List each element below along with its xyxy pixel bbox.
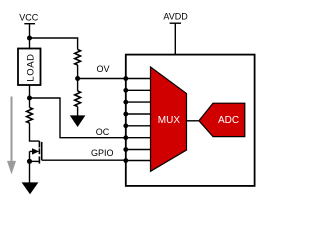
svg-text:AVDD: AVDD (163, 12, 188, 22)
svg-text:MUX: MUX (158, 115, 181, 126)
svg-text:VCC: VCC (19, 12, 39, 22)
svg-text:LOAD: LOAD (26, 53, 37, 81)
svg-text:OV: OV (97, 64, 110, 74)
svg-text:GPIO: GPIO (91, 148, 114, 158)
svg-text:ADC: ADC (218, 115, 239, 126)
svg-text:OC: OC (96, 127, 110, 137)
